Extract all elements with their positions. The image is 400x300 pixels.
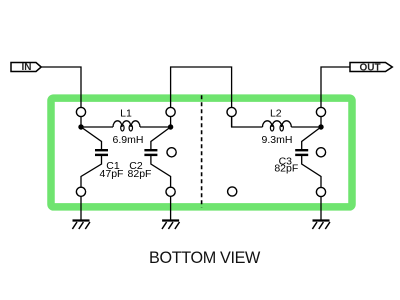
wire IN to pin 1 (41, 67, 81, 127)
capacitor C2 (144, 150, 157, 155)
pin circle 3 (227, 107, 236, 116)
pin circle 4 (316, 107, 325, 116)
section separator dashed line (201, 95, 203, 207)
junction node A (78, 124, 83, 129)
pin circle 1 (76, 107, 85, 116)
ground 3 (312, 221, 330, 230)
inductor L1 (113, 121, 140, 131)
svg-text:47pF: 47pF (100, 168, 124, 180)
wire C2 bottom to pin 6 (151, 155, 171, 220)
capacitor C1 (95, 150, 108, 155)
svg-text:82pF: 82pF (128, 168, 152, 180)
pin circle 2 (166, 107, 175, 116)
wire bridge pin2-pin3 (171, 67, 232, 127)
pin circle 6 (floating mid right) (316, 148, 325, 157)
wire L2 right lead (291, 126, 321, 128)
pin circle 9 (floating bottom) (228, 187, 237, 196)
wire pin3 to L2 (232, 116, 263, 127)
port flag OUT (350, 62, 392, 73)
svg-text:L2: L2 (270, 107, 282, 119)
junction node B (168, 124, 173, 129)
wire node A to C1 top (81, 127, 102, 150)
svg-text:6.9mH: 6.9mH (113, 134, 144, 146)
capacitor C3 (295, 150, 308, 155)
ground 1 (72, 221, 90, 230)
svg-text:9.3mH: 9.3mH (262, 134, 293, 146)
wire L1 right lead (140, 126, 171, 128)
svg-text:IN: IN (22, 62, 32, 73)
wire node B to C2 top (151, 127, 171, 150)
wire C1 bottom to pin 5 (81, 155, 102, 220)
ground 2 (162, 221, 180, 230)
svg-text:82pF: 82pF (274, 163, 298, 175)
svg-text:BOTTOM VIEW: BOTTOM VIEW (149, 249, 261, 267)
svg-text:OUT: OUT (359, 62, 380, 73)
pin circle 8 (166, 187, 175, 196)
wire OUT to pin 10 (321, 67, 350, 127)
wire node C to C3 top (302, 127, 321, 150)
svg-text:L1: L1 (120, 107, 132, 119)
inductor L2 (263, 121, 292, 131)
wire C3 bottom to pin 9 (302, 155, 321, 220)
wire L1 left lead (81, 126, 113, 128)
pin circle 5 (floating mid left) (167, 148, 176, 157)
package outline (green, bottom view) (51, 98, 352, 207)
junction node C (318, 124, 323, 129)
pin circle 7 (76, 187, 85, 196)
port flag IN (11, 62, 41, 73)
pin circle 10 (316, 187, 325, 196)
